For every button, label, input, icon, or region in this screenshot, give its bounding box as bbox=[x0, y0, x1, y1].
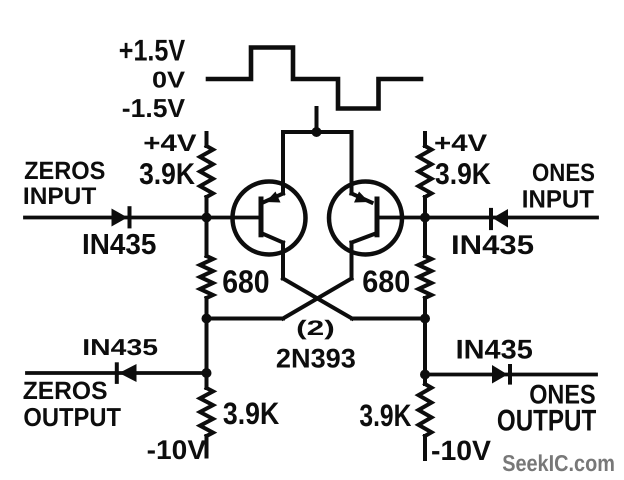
wire ZEROS output bbox=[27, 371, 207, 375]
svg-text:+4V: +4V bbox=[143, 130, 196, 157]
diode D2 IN435 (ones input) bbox=[491, 208, 508, 230]
svg-text:3.9K: 3.9K bbox=[139, 158, 195, 191]
svg-text:OUTPUT: OUTPUT bbox=[23, 402, 121, 432]
wire ONES output bbox=[425, 373, 597, 377]
svg-text:2N393: 2N393 bbox=[276, 344, 356, 374]
svg-text:-10V: -10V bbox=[431, 435, 491, 466]
svg-text:(2): (2) bbox=[296, 317, 335, 340]
node at right cross-coupling junction bbox=[420, 314, 430, 324]
wire left cross node to left output node bbox=[205, 319, 209, 374]
resistor R3 680 (left) bbox=[200, 256, 213, 298]
svg-text:OUTPUT: OUTPUT bbox=[497, 405, 596, 438]
wire R1 to left input node bbox=[205, 197, 209, 218]
svg-text:-1.5V: -1.5V bbox=[122, 93, 186, 123]
svg-text:-10V: -10V bbox=[147, 435, 206, 465]
diode D4 IN435 (ones output) bbox=[492, 364, 510, 385]
wire R3 to left cross node bbox=[205, 298, 209, 319]
node at right input junction bbox=[420, 213, 430, 223]
svg-text:SeekIC.com: SeekIC.com bbox=[502, 450, 615, 476]
svg-text:0V: 0V bbox=[152, 66, 186, 92]
node at emitter bus junction bbox=[312, 127, 322, 137]
node at left input junction bbox=[202, 213, 212, 223]
svg-text:INPUT: INPUT bbox=[522, 185, 594, 213]
wire R4 to right cross node bbox=[423, 298, 427, 319]
node at left cross-coupling junction bbox=[202, 314, 212, 324]
svg-text:+1.5V: +1.5V bbox=[119, 35, 185, 68]
wire right input node to R4 bbox=[423, 218, 427, 257]
svg-text:INPUT: INPUT bbox=[23, 183, 97, 210]
wire R6 to -10V (right) bbox=[423, 436, 427, 459]
wire R2 to right input node bbox=[423, 197, 427, 218]
svg-text:IN435: IN435 bbox=[451, 230, 534, 260]
svg-text:ZEROS: ZEROS bbox=[24, 157, 105, 185]
svg-text:IN435: IN435 bbox=[82, 334, 158, 360]
wire right cross node to right output node bbox=[423, 319, 427, 375]
resistor R6 3.9K (right bottom) bbox=[419, 384, 432, 436]
svg-text:ONES: ONES bbox=[532, 159, 595, 187]
svg-text:680: 680 bbox=[222, 264, 269, 300]
node at right output junction bbox=[420, 370, 430, 380]
wire left cross horizontal bbox=[207, 317, 284, 321]
svg-text:680: 680 bbox=[362, 264, 410, 299]
svg-text:3.9K: 3.9K bbox=[223, 396, 280, 431]
wire R5 to -10V (left) bbox=[205, 436, 209, 457]
wire +4V stub (left) bbox=[205, 133, 209, 146]
diode D1 IN435 (zeros input) bbox=[112, 206, 130, 228]
svg-text:IN435: IN435 bbox=[82, 229, 156, 261]
node at left output junction bbox=[202, 368, 212, 378]
svg-text:+4V: +4V bbox=[434, 130, 487, 157]
input pulse waveform trace bbox=[208, 48, 421, 109]
resistor R2 3.9K (right collector load) bbox=[419, 146, 432, 197]
wire left input node to R3 bbox=[205, 218, 209, 257]
wire from waveform source to emitter bus bbox=[315, 108, 319, 132]
diode D3 IN435 (zeros output) bbox=[117, 362, 137, 384]
resistor R5 3.9K (left bottom) bbox=[200, 388, 213, 436]
wire ONES input to Q2 base bbox=[379, 216, 597, 220]
svg-text:3.9K: 3.9K bbox=[435, 158, 491, 191]
wire right output node to R6 bbox=[423, 375, 427, 385]
wire right cross horizontal bbox=[352, 317, 425, 321]
wire ZEROS input to Q1 base bbox=[25, 216, 259, 220]
transistor Q1 2N393 (left) bbox=[233, 132, 306, 279]
wire Q2 collector cross-coupling diagonal bbox=[283, 279, 352, 319]
transistor Q2 2N393 (right) bbox=[329, 132, 402, 279]
wire Q1 collector cross-coupling diagonal bbox=[283, 279, 352, 319]
resistor R1 3.9K (left collector load) bbox=[200, 146, 213, 197]
wire left output node to R5 bbox=[205, 373, 209, 388]
wire +4V stub (right) bbox=[423, 133, 427, 146]
svg-text:IN435: IN435 bbox=[456, 335, 533, 365]
emitter bus wire bbox=[283, 130, 352, 134]
svg-text:3.9K: 3.9K bbox=[359, 398, 411, 433]
svg-text:ZEROS: ZEROS bbox=[23, 377, 108, 405]
resistor R4 680 (right) bbox=[419, 256, 432, 298]
